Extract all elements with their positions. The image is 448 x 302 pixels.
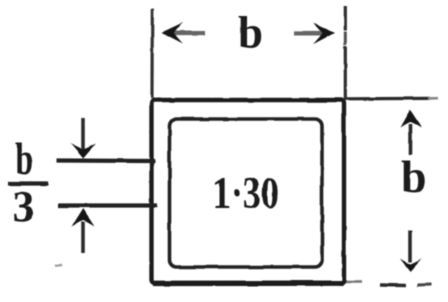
- inner square: [170, 119, 323, 267]
- wire: b/3 upper dimension line: [57, 158, 155, 163]
- left extension line (top): [150, 9, 154, 98]
- bottom dashed extension (right): [346, 280, 362, 283]
- outer square: [152, 100, 345, 283]
- svg-text:1·30: 1·30: [213, 167, 280, 218]
- arrow up (b/3 lower): [72, 209, 95, 254]
- arrow down (right b dimension): [400, 230, 422, 272]
- arrow right (top b dimension): [294, 23, 335, 44]
- stray scan mark: [55, 264, 62, 267]
- svg-text:b: b: [238, 8, 263, 58]
- svg-text:3: 3: [13, 182, 35, 231]
- svg-text:b: b: [401, 151, 427, 202]
- top edge extension to right: [344, 97, 430, 101]
- wire: b/3 lower dimension line: [58, 203, 157, 207]
- fraction bar: [8, 181, 48, 185]
- arrow down (b/3 upper): [71, 118, 97, 159]
- right extension line (top): [344, 6, 347, 31]
- arrow up (right b dimension): [401, 110, 422, 155]
- arrow left (top b dimension): [162, 22, 206, 43]
- svg-text:b: b: [16, 134, 34, 184]
